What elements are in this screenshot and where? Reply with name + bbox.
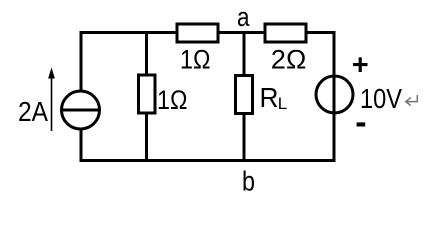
svg-text:1Ω: 1Ω bbox=[180, 45, 211, 75]
wire load branch node a to node b bbox=[243, 31, 246, 160]
svg-text:a: a bbox=[237, 2, 250, 32]
resistor R2 1-ohm shunt bbox=[139, 75, 156, 113]
current direction arrow bbox=[48, 68, 55, 132]
wire top rail bbox=[80, 31, 336, 34]
svg-text:2A: 2A bbox=[18, 96, 48, 127]
paragraph return mark bbox=[406, 95, 418, 106]
svg-text:+: + bbox=[352, 50, 369, 82]
wire 1-ohm parallel branch bbox=[145, 31, 148, 160]
voltage source V1 10V bbox=[316, 76, 353, 113]
resistor R1 1-ohm series top bbox=[177, 24, 218, 42]
label RL bbox=[260, 82, 288, 113]
wire bottom rail bbox=[80, 159, 336, 162]
resistor RL load bbox=[236, 76, 253, 114]
resistor R3 2-ohm series bbox=[265, 24, 306, 42]
svg-text:2Ω: 2Ω bbox=[271, 44, 307, 74]
svg-text:L: L bbox=[278, 94, 287, 113]
wire right branch bbox=[333, 31, 336, 160]
svg-text:R: R bbox=[260, 82, 279, 113]
current source I1 2A bbox=[62, 91, 100, 129]
svg-text:1Ω: 1Ω bbox=[157, 85, 188, 115]
svg-text:10V: 10V bbox=[360, 83, 402, 114]
svg-text:b: b bbox=[242, 166, 255, 197]
wire left branch bbox=[80, 31, 83, 160]
